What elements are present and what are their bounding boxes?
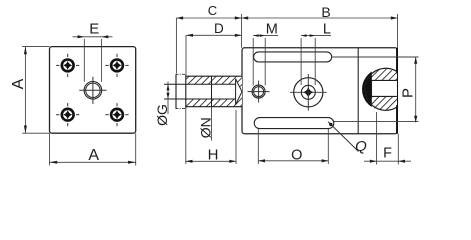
svg-text:C: C	[208, 3, 217, 18]
big port circle	[290, 74, 327, 111]
body internal divider	[357, 48, 359, 134]
svg-text:B: B	[321, 4, 330, 20]
D dimension	[186, 35, 242, 74]
right port upper line / P top extension	[332, 56, 418, 58]
dimension A (left)	[22, 47, 49, 134]
F dimension	[364, 112, 411, 165]
G dimension	[167, 82, 169, 115]
thread end line + N reference	[211, 76, 213, 107]
ball notch (open mouth)	[372, 80, 397, 96]
svg-text:F: F	[383, 146, 392, 162]
plate outline	[50, 47, 136, 134]
small port circle	[248, 81, 270, 103]
nipple bore bottom line / G extension	[164, 98, 236, 100]
cone seat diagonals	[236, 79, 242, 92]
dimension E	[73, 37, 113, 82]
svg-text:E: E	[89, 21, 99, 38]
bottom slot	[254, 118, 334, 129]
cone seat vertical	[235, 79, 237, 105]
C/B dimension line	[176, 14, 397, 74]
M dimension	[253, 36, 278, 86]
ball seat (hatched sphere section)	[358, 64, 397, 116]
svg-text:H: H	[208, 146, 219, 163]
Q leader	[328, 122, 359, 152]
dense crescent	[358, 67, 372, 112]
ball outline	[365, 68, 397, 110]
thread crest dash-dot top	[176, 73, 186, 75]
bolt hole top-left	[56, 54, 79, 77]
nipple bore top line / G extension	[164, 83, 236, 85]
thread crest dash-dot bottom	[176, 108, 186, 110]
nipple thread-start line	[185, 74, 187, 108]
svg-text:D: D	[214, 21, 224, 36]
O dimension	[258, 129, 328, 164]
svg-text:Q: Q	[355, 138, 367, 155]
bolt hole top-right	[105, 54, 128, 77]
center bore circle	[79, 77, 106, 104]
body right thick edge	[396, 48, 398, 134]
svg-text:A: A	[10, 78, 27, 89]
svg-text:L: L	[323, 21, 331, 37]
svg-text:ØN: ØN	[197, 117, 213, 138]
H dimension	[186, 109, 236, 164]
svg-text:A: A	[88, 147, 99, 164]
dimension A (bottom)	[50, 133, 136, 165]
P dimension	[415, 57, 417, 122]
nipple OD bottom line	[186, 106, 242, 108]
svg-text:P: P	[400, 88, 417, 98]
nipple left face	[175, 74, 177, 108]
L dimension	[301, 36, 331, 85]
bolt hole bottom-right	[105, 103, 128, 126]
nipple hatched walls	[186, 76, 242, 107]
body outline	[242, 48, 397, 134]
bolt hole bottom-left	[56, 103, 79, 126]
right port lower line / P bottom extension	[333, 121, 419, 123]
top slot	[254, 52, 332, 62]
svg-text:O: O	[291, 147, 302, 163]
nipple OD top line	[186, 75, 242, 77]
svg-text:M: M	[266, 21, 278, 37]
svg-text:ØG: ØG	[154, 104, 170, 126]
